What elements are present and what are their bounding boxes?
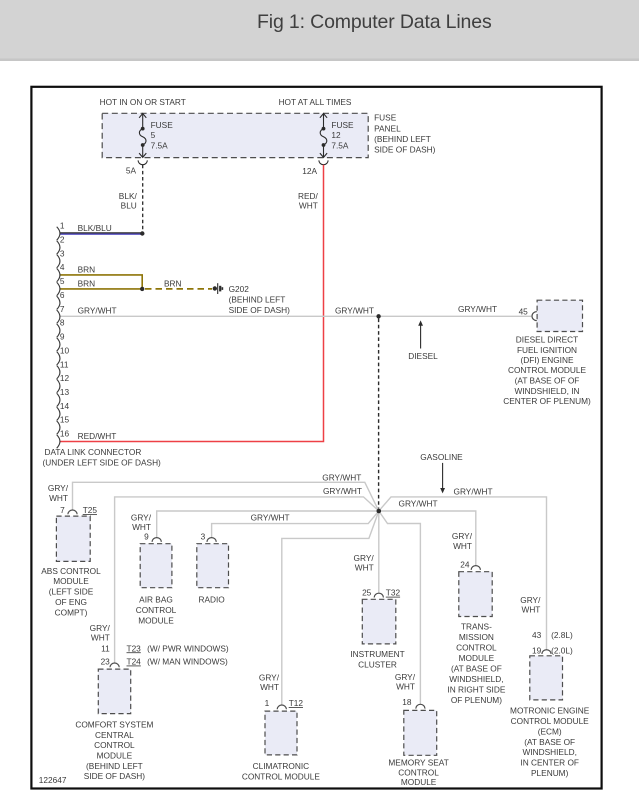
svg-text:HOT IN ON OR START: HOT IN ON OR START xyxy=(100,97,186,107)
svg-text:CONTROL MODULE: CONTROL MODULE xyxy=(242,772,321,782)
svg-text:G202: G202 xyxy=(229,284,250,294)
svg-text:19: 19 xyxy=(532,645,542,655)
svg-text:CENTER OF PLENUM): CENTER OF PLENUM) xyxy=(503,396,591,406)
svg-text:14: 14 xyxy=(60,401,70,411)
svg-text:GRY/WHT: GRY/WHT xyxy=(399,498,438,508)
svg-text:GRY/: GRY/ xyxy=(452,531,473,541)
svg-text:RED/: RED/ xyxy=(298,191,319,201)
svg-text:WINDSHIELD,: WINDSHIELD, xyxy=(449,674,503,684)
svg-text:(2.0L): (2.0L) xyxy=(551,645,573,655)
svg-text:(UNDER LEFT SIDE OF DASH): (UNDER LEFT SIDE OF DASH) xyxy=(43,458,162,468)
svg-text:GRY/WHT: GRY/WHT xyxy=(251,513,290,523)
svg-text:DATA LINK CONNECTOR: DATA LINK CONNECTOR xyxy=(45,447,142,457)
svg-text:SIDE OF DASH): SIDE OF DASH) xyxy=(374,144,436,154)
svg-text:CONTROL: CONTROL xyxy=(398,767,439,777)
svg-text:WHT: WHT xyxy=(91,633,110,643)
svg-text:SIDE OF DASH): SIDE OF DASH) xyxy=(229,305,291,315)
svg-text:GRY/WHT: GRY/WHT xyxy=(322,473,361,483)
svg-text:(BEHIND LEFT: (BEHIND LEFT xyxy=(86,761,143,771)
svg-text:DIESEL: DIESEL xyxy=(408,351,438,361)
svg-text:IN CENTER OF: IN CENTER OF xyxy=(520,758,579,768)
svg-text:10: 10 xyxy=(60,345,70,355)
svg-text:GRY/WHT: GRY/WHT xyxy=(78,306,117,316)
svg-text:GRY/WHT: GRY/WHT xyxy=(323,486,362,496)
svg-text:43: 43 xyxy=(532,630,542,640)
svg-text:CLIMATRONIC: CLIMATRONIC xyxy=(253,761,310,771)
svg-text:2: 2 xyxy=(60,235,65,245)
svg-text:16: 16 xyxy=(60,429,70,439)
svg-text:(DFI) ENGINE: (DFI) ENGINE xyxy=(520,355,573,365)
svg-text:OF ENG: OF ENG xyxy=(55,597,87,607)
svg-text:BLU: BLU xyxy=(121,201,137,211)
svg-text:WHT: WHT xyxy=(260,682,279,692)
svg-text:MODULE: MODULE xyxy=(97,751,133,761)
svg-text:IN RIGHT SIDE: IN RIGHT SIDE xyxy=(447,685,505,695)
svg-text:WHT: WHT xyxy=(453,541,472,551)
svg-text:BRN: BRN xyxy=(164,278,182,288)
svg-text:WHT: WHT xyxy=(49,493,68,503)
svg-text:12: 12 xyxy=(60,373,70,383)
svg-text:DIESEL DIRECT: DIESEL DIRECT xyxy=(516,335,578,345)
svg-text:GRY/: GRY/ xyxy=(90,623,111,633)
svg-text:FUSE: FUSE xyxy=(151,120,174,130)
svg-text:AIR BAG: AIR BAG xyxy=(139,595,173,605)
svg-text:FUSE: FUSE xyxy=(331,120,354,130)
svg-text:T12: T12 xyxy=(289,698,304,708)
svg-text:MODULE: MODULE xyxy=(459,653,495,663)
svg-text:11: 11 xyxy=(60,359,69,369)
svg-text:(LEFT SIDE: (LEFT SIDE xyxy=(49,587,94,597)
svg-text:BRN: BRN xyxy=(78,278,96,288)
svg-text:HOT AT ALL TIMES: HOT AT ALL TIMES xyxy=(279,97,352,107)
svg-text:ABS CONTROL: ABS CONTROL xyxy=(41,566,101,576)
svg-text:PLENUM): PLENUM) xyxy=(531,768,569,778)
svg-text:15: 15 xyxy=(60,415,70,425)
svg-text:GRY/: GRY/ xyxy=(520,595,541,605)
svg-text:COMPT): COMPT) xyxy=(55,607,88,617)
svg-text:CENTRAL: CENTRAL xyxy=(95,730,134,740)
svg-text:MISSION: MISSION xyxy=(459,632,494,642)
svg-text:GRY/: GRY/ xyxy=(395,672,416,682)
svg-text:7.5A: 7.5A xyxy=(151,141,169,151)
svg-text:(AT BASE OF OF: (AT BASE OF OF xyxy=(515,376,580,386)
svg-text:WHT: WHT xyxy=(521,605,540,615)
svg-text:CONTROL: CONTROL xyxy=(136,605,177,615)
svg-text:7.5A: 7.5A xyxy=(331,141,349,151)
svg-text:8: 8 xyxy=(60,318,65,328)
svg-text:(2.8L): (2.8L) xyxy=(551,630,573,640)
svg-text:7: 7 xyxy=(60,505,65,515)
svg-text:CONTROL: CONTROL xyxy=(456,643,497,653)
svg-text:(W/ MAN WINDOWS): (W/ MAN WINDOWS) xyxy=(145,657,228,667)
svg-text:MODULE: MODULE xyxy=(53,576,89,586)
svg-text:TRANS-: TRANS- xyxy=(461,622,492,632)
svg-text:5: 5 xyxy=(151,130,156,140)
svg-text:5: 5 xyxy=(60,276,65,286)
svg-text:FUSE: FUSE xyxy=(374,112,397,122)
svg-text:(BEHIND LEFT: (BEHIND LEFT xyxy=(374,134,431,144)
svg-text:12: 12 xyxy=(331,130,341,140)
svg-text:Fig 1: Computer Data Lines: Fig 1: Computer Data Lines xyxy=(257,11,492,33)
svg-text:BLK/BLU: BLK/BLU xyxy=(78,223,112,233)
svg-text:(ECM): (ECM) xyxy=(538,726,562,736)
svg-text:CONTROL: CONTROL xyxy=(94,740,135,750)
svg-text:T32: T32 xyxy=(386,588,401,598)
svg-text:WHT: WHT xyxy=(299,201,318,211)
svg-text:CONTROL MODULE: CONTROL MODULE xyxy=(508,365,587,375)
svg-text:18: 18 xyxy=(402,697,412,707)
svg-text:GASOLINE: GASOLINE xyxy=(420,452,463,462)
svg-text:GRY/: GRY/ xyxy=(131,512,152,522)
svg-text:GRY/: GRY/ xyxy=(354,553,375,563)
svg-text:CONTROL MODULE: CONTROL MODULE xyxy=(511,716,590,726)
svg-text:MEMORY SEAT: MEMORY SEAT xyxy=(388,757,448,767)
svg-text:WHT: WHT xyxy=(396,682,415,692)
svg-text:RED/WHT: RED/WHT xyxy=(78,431,117,441)
svg-text:45: 45 xyxy=(519,307,529,317)
svg-text:SIDE OF DASH): SIDE OF DASH) xyxy=(84,771,146,781)
svg-text:RADIO: RADIO xyxy=(198,595,225,605)
svg-text:(W/ PWR WINDOWS): (W/ PWR WINDOWS) xyxy=(145,643,229,653)
svg-text:6: 6 xyxy=(60,290,65,300)
svg-text:T24: T24 xyxy=(127,657,142,667)
svg-text:24: 24 xyxy=(460,560,470,570)
svg-text:1: 1 xyxy=(60,221,65,231)
svg-text:GRY/: GRY/ xyxy=(48,483,69,493)
svg-text:PANEL: PANEL xyxy=(374,123,401,133)
svg-text:COMFORT SYSTEM: COMFORT SYSTEM xyxy=(75,720,153,730)
svg-text:CLUSTER: CLUSTER xyxy=(358,660,397,670)
svg-text:11: 11 xyxy=(101,643,110,653)
svg-text:9: 9 xyxy=(144,531,149,541)
svg-text:5A: 5A xyxy=(126,166,137,176)
svg-text:12A: 12A xyxy=(302,166,317,176)
svg-text:WHT: WHT xyxy=(355,563,374,573)
svg-text:3: 3 xyxy=(60,248,65,258)
svg-text:WINDSHIELD, IN: WINDSHIELD, IN xyxy=(515,386,580,396)
svg-text:13: 13 xyxy=(60,387,70,397)
svg-text:T23: T23 xyxy=(127,643,142,653)
svg-text:FUEL IGNITION: FUEL IGNITION xyxy=(517,345,577,355)
svg-text:(AT BASE OF: (AT BASE OF xyxy=(524,737,575,747)
svg-text:4: 4 xyxy=(60,262,65,272)
svg-text:MOTRONIC ENGINE: MOTRONIC ENGINE xyxy=(510,705,590,715)
svg-text:T25: T25 xyxy=(83,505,98,515)
svg-text:MODULE: MODULE xyxy=(401,777,437,787)
svg-text:(AT BASE OF: (AT BASE OF xyxy=(451,664,502,674)
svg-text:7: 7 xyxy=(60,304,65,314)
svg-text:GRY/WHT: GRY/WHT xyxy=(458,304,497,314)
svg-text:122647: 122647 xyxy=(39,775,67,785)
svg-text:WINDSHIELD,: WINDSHIELD, xyxy=(522,747,576,757)
svg-text:3: 3 xyxy=(201,531,206,541)
svg-text:MODULE: MODULE xyxy=(138,615,174,625)
svg-text:BRN: BRN xyxy=(78,264,96,274)
svg-text:GRY/WHT: GRY/WHT xyxy=(454,486,493,496)
svg-text:GRY/: GRY/ xyxy=(259,673,280,683)
svg-text:1: 1 xyxy=(265,698,270,708)
svg-text:(BEHIND LEFT: (BEHIND LEFT xyxy=(229,294,286,304)
svg-text:25: 25 xyxy=(362,588,372,598)
svg-text:BLK/: BLK/ xyxy=(119,191,138,201)
svg-text:OF PLENUM): OF PLENUM) xyxy=(451,695,502,705)
svg-text:23: 23 xyxy=(101,657,111,667)
svg-text:9: 9 xyxy=(60,332,65,342)
svg-text:INSTRUMENT: INSTRUMENT xyxy=(350,649,404,659)
svg-text:GRY/WHT: GRY/WHT xyxy=(335,306,374,316)
